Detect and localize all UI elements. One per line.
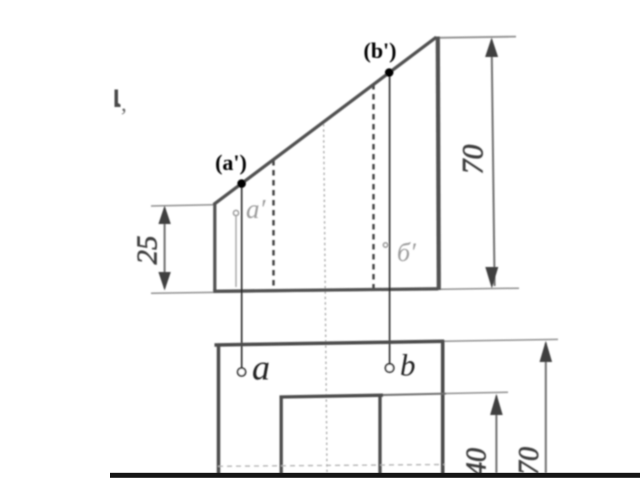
plan view: hidden dashed edge — [218, 465, 445, 467]
plan view: extension for dim 40 — [446, 392, 508, 393]
dim 25 arrow line — [164, 208, 166, 288]
centerline (vertical axis through both views) — [324, 124, 327, 472]
front view: sloped top edge — [214, 37, 437, 204]
svg-text:70: 70 — [514, 447, 545, 475]
front view: left extension line for dim 25 — [151, 205, 214, 206]
svg-text:b: b — [400, 348, 416, 383]
pencil mark: small dot at b' — [383, 243, 387, 247]
plan view: outer rect top edge — [215, 341, 445, 345]
front view: bottom thin extension line — [151, 288, 519, 293]
svg-text:a: a — [252, 348, 270, 388]
pencil mark: small circle at a' — [233, 210, 238, 215]
front view: left edge — [213, 204, 216, 292]
front view: hidden edge dashed line 1 — [272, 160, 274, 288]
front view: right edge — [438, 37, 439, 291]
plan view: line continuation to outer edge — [383, 394, 446, 395]
projection line from b' to b — [389, 73, 391, 364]
svg-text:a′: a′ — [246, 194, 267, 224]
pencil line below a' — [235, 216, 237, 287]
stray mark iota top-left — [115, 90, 121, 108]
svg-text:(a'): (a') — [215, 150, 247, 175]
plan view: inner rect left edge — [280, 396, 283, 475]
front view: bottom edge — [213, 289, 438, 292]
dim 70 (plan) arrow line — [545, 343, 547, 473]
svg-text:,: , — [121, 91, 127, 116]
dim 25 arrowhead up — [158, 206, 170, 225]
plan view: inner rect top edge — [280, 395, 384, 397]
projection line from a' to a — [241, 185, 243, 369]
front view: top extension line for dim 70 — [436, 37, 516, 38]
dim 70 arrowhead down — [485, 267, 498, 289]
plan view: top edge extension for dim 70 — [444, 339, 558, 341]
point (a') dot — [237, 179, 246, 188]
dim 70 (plan) arrowhead up — [540, 341, 553, 362]
dim 40 arrowhead up — [490, 394, 503, 415]
svg-text:25: 25 — [132, 236, 164, 265]
front view: hidden edge dashed line 2 — [372, 84, 374, 288]
bottom black scan bar — [110, 473, 640, 478]
plan view: outer rect left edge — [217, 344, 221, 475]
svg-text:(b'): (b') — [364, 38, 397, 63]
point b circle — [385, 364, 393, 372]
point (b') dot — [385, 68, 394, 77]
svg-text:70: 70 — [457, 145, 490, 175]
plan view: outer rect right edge — [441, 340, 445, 474]
dim 25 arrowhead down — [158, 272, 170, 291]
point a circle — [238, 368, 246, 376]
dim 70 arrowhead up — [485, 38, 498, 58]
dim 40 arrow line — [495, 396, 497, 473]
svg-text:б′: б′ — [397, 238, 416, 267]
dim 70 (front) arrow line — [492, 40, 495, 286]
plan view: inner rect right edge — [378, 396, 381, 475]
svg-text:40: 40 — [462, 448, 493, 476]
